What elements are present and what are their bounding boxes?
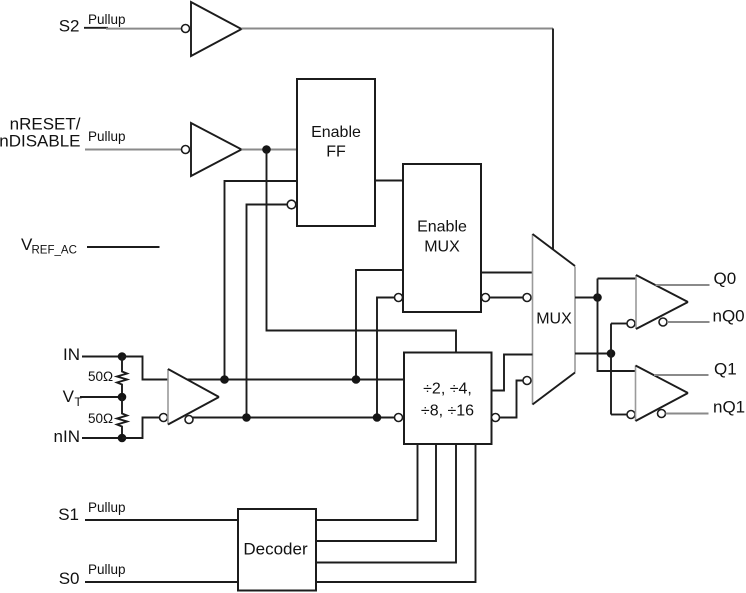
Enable MUX comp output bubble — [482, 294, 490, 302]
junction dot IN / termination — [118, 352, 127, 361]
wire MUX true output — [575, 297, 598, 299]
wire clock-true to Enable MUX — [356, 270, 403, 380]
buffer U8 comp output bubble — [659, 318, 667, 326]
svg-text:nQ0: nQ0 — [713, 307, 745, 326]
input buffer U6 (differential) — [167, 369, 169, 425]
svg-text:Pullup: Pullup — [88, 562, 126, 577]
buffer U6 comp output bubble — [185, 416, 193, 424]
svg-text:nDISABLE: nDISABLE — [0, 132, 81, 151]
svg-text:Pullup: Pullup — [88, 12, 126, 27]
junction dot nRESET net — [262, 145, 271, 154]
wire S2 buffered to MUX select (horizontal) — [242, 28, 554, 30]
buffer U2 input bubble — [182, 146, 190, 154]
wire Enable FF output to Enable MUX — [375, 180, 403, 182]
junction dot clock-comp / Enable MUX branch — [373, 413, 382, 422]
wire clock-comp net (buffer U6 to divider) — [193, 417, 395, 419]
wire S0 to decoder — [85, 581, 238, 583]
svg-text:Enable: Enable — [311, 124, 361, 141]
wire Q1 — [654, 374, 709, 376]
junction dot VT — [118, 393, 127, 402]
wire true output to Q0 buffer — [598, 278, 637, 280]
resistor R2 (zigzag) — [117, 397, 127, 438]
buffer U6 bottom input bubble — [160, 414, 168, 422]
Q1 buffer comp input bubble — [627, 411, 635, 419]
wire Enable MUX comp output to MUX — [490, 297, 524, 299]
svg-text:50Ω: 50Ω — [88, 369, 113, 384]
divider block U7 — [404, 353, 492, 445]
buffer U9 comp output bubble — [658, 410, 666, 418]
Enable MUX comp-clock input bubble — [395, 294, 403, 302]
wire clock-comp to Enable MUX bubble — [377, 298, 395, 418]
Decoder block U10 — [238, 509, 316, 591]
buffer U1 (S2 input buffer) — [191, 2, 242, 56]
wire comp output to Q1 buffer bubble — [611, 414, 627, 416]
wire Enable MUX true output to MUX — [481, 272, 533, 274]
svg-text:Q0: Q0 — [714, 269, 737, 288]
Q0 buffer comp input bubble — [627, 320, 635, 328]
wire clock-true to Enable FF (left,down to clock net) — [225, 181, 298, 380]
svg-text:Enable: Enable — [417, 219, 467, 236]
Enable MUX block U4 — [403, 164, 481, 312]
wire decoder output 3 to divider — [316, 444, 456, 563]
MUX comp input bubble (lower) — [523, 377, 531, 385]
wire decoder output 2 to divider — [316, 444, 436, 541]
wire nIN — [82, 437, 122, 439]
wire divider true output to MUX — [492, 355, 533, 391]
wire decoder output 1 to divider — [316, 444, 418, 520]
wire decoder output 4 to divider — [316, 444, 476, 582]
wire comp output vertical — [610, 324, 612, 415]
wire clock-comp to Enable FF bubble — [247, 205, 288, 418]
buffer U1 input bubble — [182, 25, 190, 33]
wire clock-true net (buffer U6 to divider) — [187, 379, 404, 381]
resistor R1 (zigzag) — [117, 357, 127, 398]
wire MUX comp output — [575, 353, 611, 355]
wire VT — [80, 396, 122, 398]
wire S1 to decoder — [85, 519, 238, 521]
wire S2 select vertical into MUX top — [552, 29, 554, 250]
wire VREF_AC stub — [87, 246, 160, 248]
svg-text:REF_AC: REF_AC — [32, 245, 77, 257]
wire comp output to Q0 buffer bubble — [611, 323, 627, 325]
svg-text:IN: IN — [63, 345, 80, 364]
buffer U2 (nRESET input buffer) — [191, 123, 242, 176]
divider comp output bubble — [492, 414, 500, 422]
svg-text:Pullup: Pullup — [88, 500, 126, 515]
wire nRESET to divider reset (down, right, down into divider top) — [267, 151, 457, 353]
junction dot nIN — [118, 434, 127, 443]
wire nQ0 — [667, 321, 710, 323]
svg-text:S0: S0 — [59, 569, 80, 588]
svg-text:S2: S2 — [59, 17, 80, 36]
output buffer U9 (Q1) — [635, 366, 637, 422]
wire true output vertical — [598, 279, 636, 372]
junction dot clock-true / FF branch — [220, 375, 229, 384]
junction dot clock-true / Enable MUX branch — [352, 375, 361, 384]
wire IN to buffer U6 top input — [122, 357, 168, 380]
Enable FF block U3 — [297, 79, 375, 226]
S2 pullup underline — [84, 27, 108, 29]
wire IN — [82, 356, 122, 358]
junction dot clock-comp / FF branch — [242, 413, 251, 422]
Enable FF comp-clock input bubble — [287, 200, 296, 209]
svg-text:÷8, ÷16: ÷8, ÷16 — [421, 403, 474, 420]
svg-text:V: V — [63, 387, 75, 406]
svg-text:FF: FF — [326, 144, 346, 161]
svg-text:Decoder: Decoder — [243, 540, 308, 559]
svg-text:50Ω: 50Ω — [88, 411, 113, 426]
wire S2 to buffer U1 — [106, 28, 182, 30]
svg-text:nQ1: nQ1 — [713, 398, 745, 417]
svg-text:÷2, ÷4,: ÷2, ÷4, — [423, 381, 472, 398]
wire nRESET buffered to Enable FF — [242, 149, 298, 151]
svg-text:S1: S1 — [58, 505, 79, 524]
wire divider comp output to MUX — [500, 381, 524, 418]
MUX comp input bubble — [523, 294, 531, 302]
output buffer U8 (Q0) — [635, 275, 637, 329]
MUX trapezoid U5 — [532, 234, 534, 405]
svg-text:Pullup: Pullup — [88, 129, 126, 144]
svg-text:MUX: MUX — [424, 239, 460, 256]
wire nRESET to buffer U2 — [85, 149, 182, 151]
junction dot MUX comp output — [607, 349, 616, 358]
wire nIN to buffer U6 bottom input — [122, 418, 160, 439]
svg-text:MUX: MUX — [536, 311, 572, 328]
junction dot MUX true output — [593, 293, 602, 302]
divider comp input bubble — [395, 414, 403, 422]
wire nQ1 — [666, 413, 709, 415]
svg-text:Q1: Q1 — [714, 360, 737, 379]
wire Q0 — [656, 284, 710, 286]
svg-text:nIN: nIN — [54, 427, 80, 446]
